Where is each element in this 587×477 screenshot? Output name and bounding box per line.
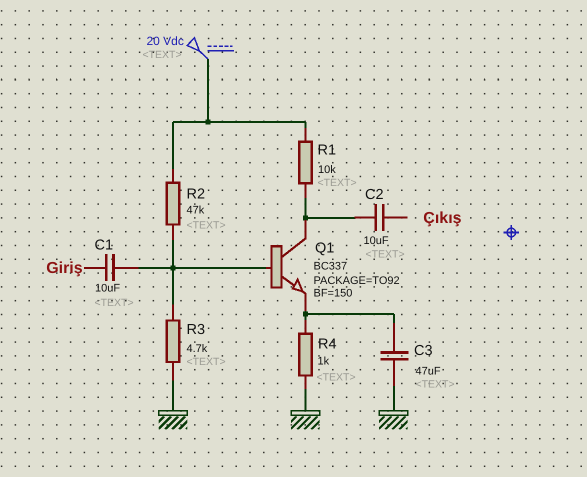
capacitor C2 <box>355 204 408 231</box>
R2 value label 47k <box>187 205 205 217</box>
ground under R4 <box>283 411 338 430</box>
wire VCC vertical from source to rail <box>207 59 209 122</box>
Q1 property PACKAGE=TO92 <box>314 275 400 287</box>
ground under C3 <box>371 411 426 430</box>
output terminal label Cikis <box>423 210 461 227</box>
R4 value label 1k <box>318 356 330 368</box>
svg-text:R4: R4 <box>318 337 337 353</box>
junction collector node <box>303 215 308 220</box>
R4 ref label <box>318 337 337 353</box>
Q1 value label BC337 <box>314 261 348 273</box>
capacitor C3 <box>380 323 408 386</box>
svg-text:47uF: 47uF <box>416 365 441 377</box>
junction base node <box>170 265 175 270</box>
svg-text:<TEXT>: <TEXT> <box>366 249 405 261</box>
C1 TEXT placeholder <box>95 297 134 309</box>
wire VCC horizontal rail <box>173 121 306 123</box>
wire R4 to ground <box>304 389 306 411</box>
svg-text:<TEXT>: <TEXT> <box>187 220 226 232</box>
wire base node to Q1 base <box>173 267 266 269</box>
svg-text:C2: C2 <box>365 187 384 203</box>
wire emitter to emitter node <box>304 311 306 314</box>
wire emitter node to C3 <box>306 313 395 315</box>
wire down to C3 <box>393 314 395 323</box>
wire C1 to base node <box>139 267 174 269</box>
C2 ref label <box>365 187 384 203</box>
wire rail to R1 <box>304 122 306 128</box>
C3 TEXT placeholder <box>416 378 455 390</box>
label 20 Vdc <box>147 34 184 48</box>
transistor Q1 <box>266 220 306 311</box>
wire base node to R3 <box>172 268 174 305</box>
svg-text:1k: 1k <box>318 356 330 368</box>
resistor R4 <box>299 320 311 389</box>
svg-text:20 Vdc: 20 Vdc <box>147 34 184 48</box>
R1 value label 10k <box>318 164 336 176</box>
wire rail to R2 <box>172 122 174 169</box>
wire R1 to collector node <box>304 198 306 218</box>
DC power source symbol 20 Vdc <box>187 38 234 59</box>
C3 ref label <box>414 343 433 359</box>
R4 TEXT placeholder <box>317 372 356 384</box>
svg-text:<TEXT>: <TEXT> <box>416 378 455 390</box>
junction emitter node <box>303 311 308 316</box>
capacitor C1 <box>84 254 140 281</box>
resistor R3 <box>167 305 179 381</box>
svg-text:<TEXT>: <TEXT> <box>143 49 182 61</box>
R1 ref label <box>318 143 337 159</box>
Q1 ref label <box>315 241 334 257</box>
resistor R2 <box>167 169 179 240</box>
R2 TEXT placeholder <box>187 220 226 232</box>
svg-text:R1: R1 <box>318 143 337 159</box>
svg-text:10uF: 10uF <box>95 283 120 295</box>
svg-text:47k: 47k <box>187 205 205 217</box>
wire R2 to base node <box>172 240 174 268</box>
C3 value label 47uF <box>416 365 441 377</box>
C1 value label 10uF <box>95 283 120 295</box>
svg-text:10uF: 10uF <box>364 235 389 247</box>
svg-text:<TEXT>: <TEXT> <box>318 177 357 189</box>
wire C3 to ground <box>393 386 395 411</box>
svg-text:<TEXT>: <TEXT> <box>317 372 356 384</box>
wire R3 to ground <box>172 381 174 411</box>
svg-text:10k: 10k <box>318 164 336 176</box>
origin marker crosshair <box>504 225 519 240</box>
svg-text:BC337: BC337 <box>314 261 348 273</box>
svg-text:R3: R3 <box>187 322 206 338</box>
Q1 property BF=150 <box>314 287 353 299</box>
resistor R1 <box>299 128 311 198</box>
C2 value label 10uF <box>364 235 389 247</box>
ground under R3 <box>151 411 206 430</box>
input terminal label Giris <box>46 260 83 277</box>
wire collector node to C2 <box>306 217 356 219</box>
svg-text:Q1: Q1 <box>315 241 334 257</box>
svg-text:C3: C3 <box>414 343 433 359</box>
junction VCC node <box>205 119 210 124</box>
svg-text:Çıkış: Çıkış <box>423 210 461 227</box>
svg-text:R2: R2 <box>187 187 206 203</box>
svg-text:C1: C1 <box>95 238 114 254</box>
svg-text:4.7k: 4.7k <box>187 343 208 355</box>
R3 ref label <box>187 322 206 338</box>
C2 TEXT placeholder <box>366 249 405 261</box>
C1 ref label <box>95 238 114 254</box>
R3 TEXT placeholder <box>187 356 226 368</box>
power source TEXT placeholder <box>143 49 182 61</box>
R1 TEXT placeholder <box>318 177 357 189</box>
R3 value label 4.7k <box>187 343 208 355</box>
R2 ref label <box>187 187 206 203</box>
svg-text:Giriş: Giriş <box>46 260 83 277</box>
svg-text:<TEXT>: <TEXT> <box>95 297 134 309</box>
svg-text:PACKAGE=TO92: PACKAGE=TO92 <box>314 275 400 287</box>
svg-text:<TEXT>: <TEXT> <box>187 356 226 368</box>
wire emitter node to R4 <box>304 314 306 320</box>
svg-text:BF=150: BF=150 <box>314 287 353 299</box>
